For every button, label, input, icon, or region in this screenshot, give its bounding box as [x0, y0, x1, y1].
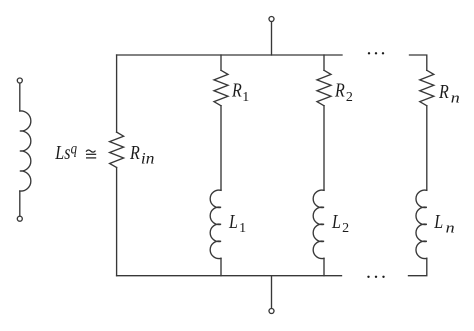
svg-text:in: in	[141, 149, 154, 167]
svg-text:R: R	[129, 141, 140, 163]
inductor L1 (coil, bumps left)	[210, 190, 221, 258]
wire left branch bottom	[116, 168, 118, 276]
svg-text:2: 2	[342, 221, 349, 236]
wire branch 2 middle	[323, 106, 325, 191]
label R1	[231, 79, 249, 105]
node dots top (ellipsis)	[368, 52, 384, 54]
wire	[19, 191, 21, 216]
label L2	[331, 210, 349, 235]
svg-text:R: R	[438, 80, 449, 102]
node dots bottom (ellipsis)	[367, 276, 384, 278]
svg-text:L: L	[331, 210, 341, 232]
label Rn	[438, 80, 460, 106]
label L1	[228, 210, 246, 235]
wire branch 1 middle	[220, 106, 222, 191]
resistor Rin	[110, 132, 124, 167]
wire top terminal stub	[271, 22, 273, 55]
wire branch 2 top	[323, 55, 325, 70]
wire branch n bottom stub	[409, 258, 427, 275]
wire top rail	[117, 54, 342, 56]
wire branch 2 bottom	[323, 258, 325, 275]
svg-text:L: L	[433, 211, 443, 233]
bottom terminal circle	[269, 309, 274, 314]
resistor R1	[214, 70, 228, 105]
terminal circle top-left of inductor Ls	[17, 78, 22, 83]
svg-text:R: R	[231, 79, 242, 101]
terminal circle bottom-left of inductor Ls	[17, 216, 22, 221]
inductor L2 (coil, bumps left)	[313, 190, 324, 258]
inductor Ls (coil, bumps right)	[20, 111, 31, 191]
wire branch 1 bottom	[220, 258, 222, 275]
svg-text:n: n	[451, 89, 460, 106]
svg-text:1: 1	[239, 221, 246, 236]
congruence sign	[86, 150, 96, 158]
wire branch n top stub	[410, 55, 427, 70]
wire branch n middle	[426, 106, 428, 191]
svg-text:Ls: Ls	[54, 141, 70, 163]
svg-text:q: q	[71, 140, 77, 158]
label Ln	[433, 211, 454, 236]
inductor Ln (coil, bumps left)	[416, 190, 427, 258]
label Ls^q	[54, 140, 77, 163]
svg-text:L: L	[228, 210, 238, 232]
svg-text:2: 2	[346, 90, 353, 105]
svg-text:1: 1	[242, 90, 249, 105]
label R2	[334, 79, 353, 105]
resistor Rn	[420, 70, 434, 105]
wire	[19, 83, 21, 111]
wire left branch top	[116, 55, 118, 132]
wire branch 1 top	[220, 55, 222, 70]
wire bottom terminal stub	[271, 276, 273, 309]
top terminal circle	[269, 17, 274, 22]
svg-text:R: R	[334, 79, 345, 101]
svg-text:n: n	[446, 219, 455, 236]
wire bottom rail	[117, 275, 342, 277]
label Rin	[129, 141, 154, 167]
resistor R2	[317, 70, 331, 105]
